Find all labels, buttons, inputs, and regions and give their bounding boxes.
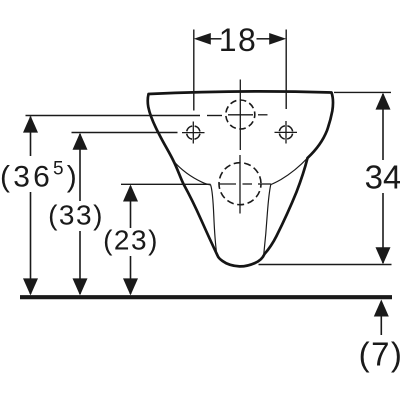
dim 33 arrow down — [73, 278, 88, 295]
dim 34 bottom extension line — [259, 264, 392, 266]
dim 33 vertical line — [79, 134, 81, 201]
dim 34 top extension line — [334, 91, 391, 93]
fixing hole right crosshair — [275, 131, 298, 133]
dim 18 line segment left — [210, 38, 222, 40]
svg-text:(23): (23) — [103, 225, 159, 256]
dim 36.5 extension line — [26, 115, 201, 117]
dim 18 line segment right — [257, 38, 271, 40]
inner funnel line right — [264, 158, 308, 254]
dim 18 extension line left — [193, 30, 195, 111]
svg-text:34: 34 — [365, 159, 400, 196]
toilet body outline — [148, 91, 333, 266]
dim 18 arrow left — [194, 33, 211, 45]
dim 23 arrow down — [123, 278, 138, 295]
dim 33 extension line — [72, 132, 178, 134]
inner funnel line left — [174, 161, 217, 255]
dim 36.5 vertical line — [30, 117, 32, 157]
outlet dashed circle — [219, 163, 261, 205]
fixing hole right circle — [279, 126, 292, 139]
dim 34 vertical line — [382, 94, 384, 160]
outlet horizontal centerline dashes — [219, 183, 236, 185]
dim 36.5 arrow up — [23, 116, 38, 133]
dim 23 extension line — [121, 183, 211, 185]
top hole vertical centerline — [239, 80, 241, 151]
svg-text:(7): (7) — [359, 336, 400, 373]
top circle centerline dashes — [207, 115, 222, 117]
dim 7 arrow up — [374, 300, 389, 317]
svg-text:(365): (365) — [0, 159, 80, 194]
dim 23 arrow up — [123, 185, 138, 202]
dim 18 arrow right — [269, 33, 286, 45]
dim 34 arrow up — [376, 93, 391, 110]
dim 34 arrow down — [376, 247, 391, 264]
svg-text:(33): (33) — [48, 199, 104, 230]
outlet vertical centerline — [239, 155, 241, 214]
fixing hole left crosshair — [182, 132, 205, 134]
dim 18 extension line right — [285, 30, 287, 110]
dim 7 vertical line — [380, 316, 382, 335]
dim 23 vertical line — [130, 186, 132, 228]
top hole dashed circle — [226, 100, 255, 129]
dim 33 arrow up — [73, 133, 88, 150]
fixing hole left circle — [187, 126, 200, 139]
floor line — [20, 295, 392, 299]
dim 36.5 arrow down — [23, 278, 38, 295]
svg-text:18: 18 — [219, 22, 258, 58]
